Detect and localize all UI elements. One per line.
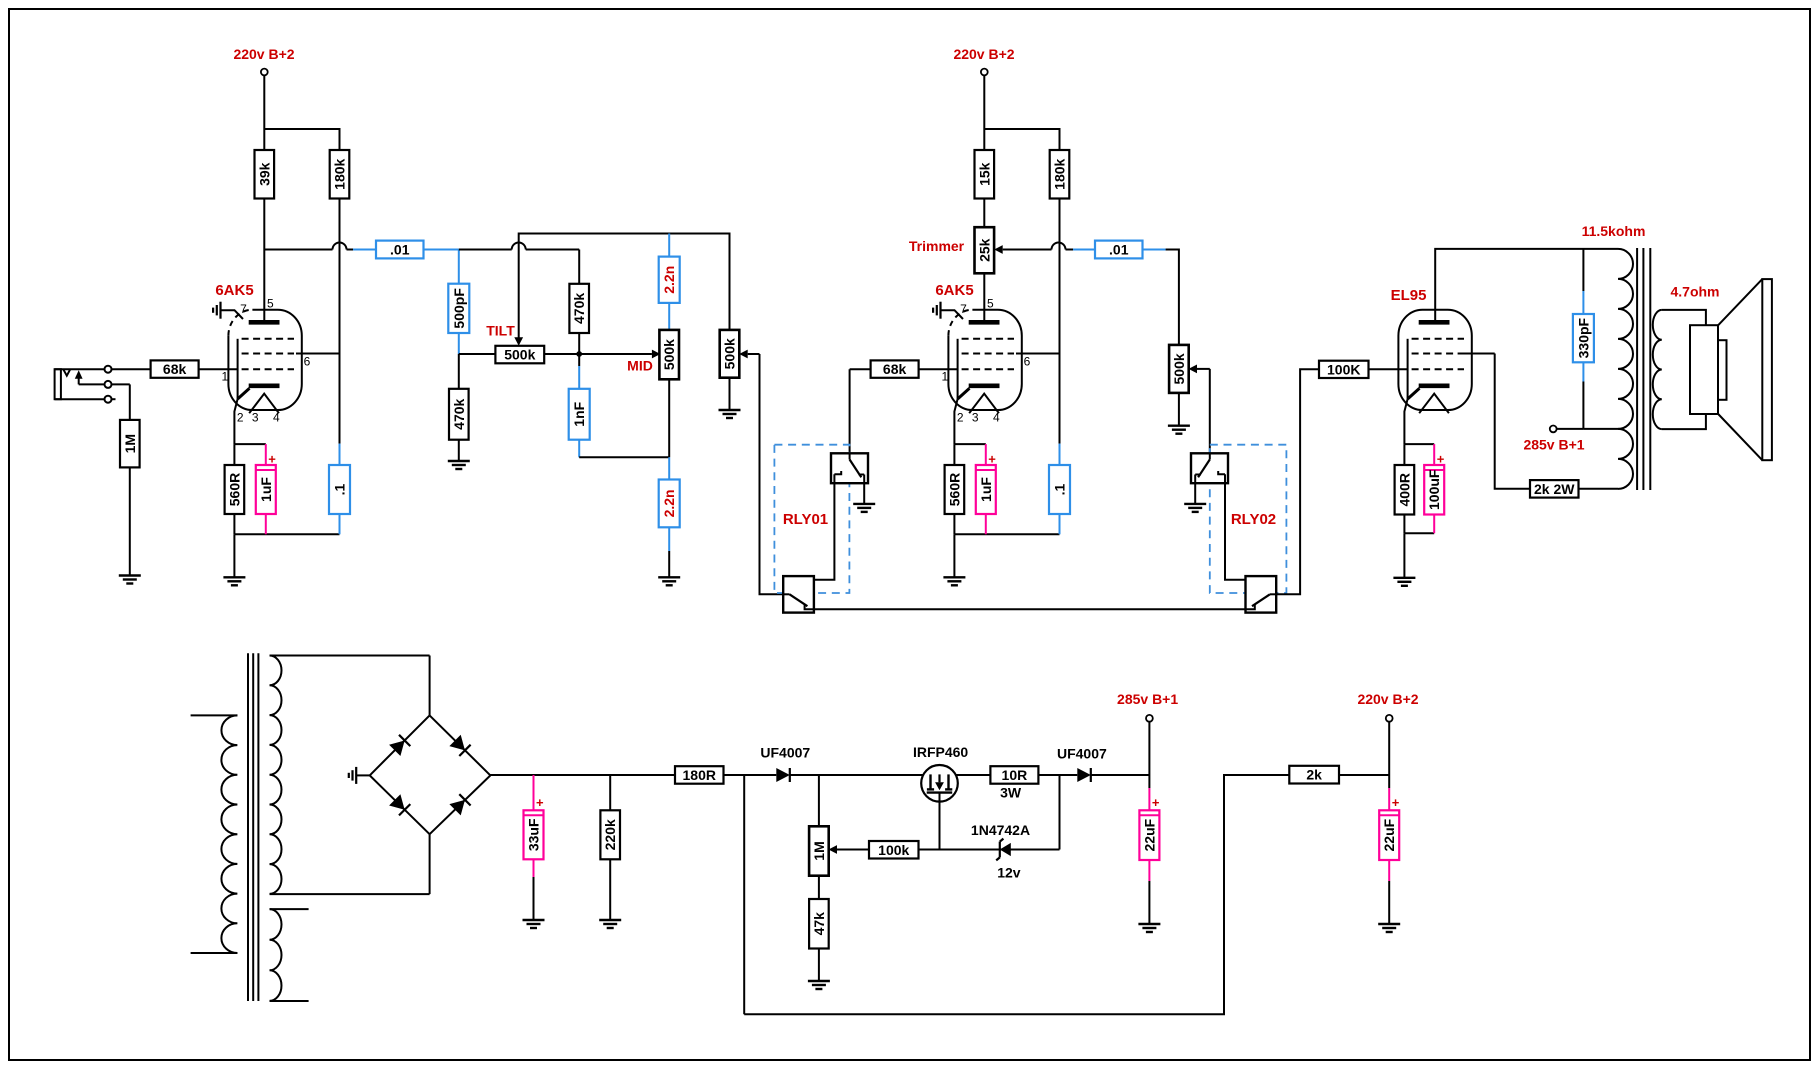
wire RLY02 link upper to lower <box>1225 474 1255 585</box>
pot MID 500k <box>627 330 679 379</box>
svg-text:33uF: 33uF <box>526 818 542 851</box>
svg-text:220v B+2: 220v B+2 <box>1357 691 1418 707</box>
ground bridge negative <box>349 767 370 784</box>
svg-text:6: 6 <box>304 355 311 369</box>
resistor 2k (B+2 filter) <box>1289 766 1339 784</box>
resistor 560R (stage2 cathode) <box>945 465 965 514</box>
relay RLY01 lower switch <box>783 576 814 613</box>
svg-text:5: 5 <box>987 297 994 311</box>
svg-text:100k: 100k <box>878 842 909 858</box>
svg-text:400R: 400R <box>1396 473 1412 506</box>
svg-text:1uF: 1uF <box>258 477 274 502</box>
tube V2 6AK5 <box>933 282 1031 444</box>
svg-text:6: 6 <box>1024 355 1031 369</box>
svg-text:220k: 220k <box>602 819 618 850</box>
transformer T1 heater winding <box>270 909 309 1001</box>
svg-text:180k: 180k <box>1052 158 1068 189</box>
ground below 22uF B+1 <box>1138 924 1160 932</box>
resistor 220k (bleeder) <box>600 775 620 920</box>
node 500pF to TILT wire <box>459 354 496 389</box>
wire D5 to MOSFET drain <box>790 774 923 776</box>
svg-text:47k: 47k <box>811 912 827 936</box>
svg-text:3W: 3W <box>1000 785 1022 801</box>
ground RLY01 upper switch <box>853 504 875 512</box>
capacitor .1 (stage2) <box>1049 465 1070 534</box>
node 285v B+1 terminal (output) <box>1523 426 1584 453</box>
pot 1M (bias adjust) <box>809 826 869 875</box>
svg-text:2k: 2k <box>1306 767 1322 783</box>
svg-text:285v B+1: 285v B+1 <box>1523 437 1584 453</box>
svg-text:220v B+2: 220v B+2 <box>233 46 294 62</box>
ground RLY02 upper switch <box>1184 504 1206 512</box>
svg-text:220v B+2: 220v B+2 <box>953 46 1014 62</box>
capacitor 22uF (B+2 filter) <box>1379 788 1400 924</box>
relay RLY02 upper switch <box>1191 453 1228 504</box>
wire .01 to 470k top with hop over TILT wiper <box>459 243 579 284</box>
relay RLY01 upper switch <box>831 453 868 504</box>
transformer T1 HV secondary <box>270 656 430 895</box>
svg-text:1: 1 <box>222 370 229 384</box>
svg-text:RLY01: RLY01 <box>783 511 828 528</box>
svg-text:500k: 500k <box>661 339 677 370</box>
transistor IRFP460 MOSFET <box>913 744 968 850</box>
svg-text:330pF: 330pF <box>1575 317 1591 358</box>
resistor 470k (tone upper) <box>569 284 589 333</box>
svg-text:EL95: EL95 <box>1391 287 1427 304</box>
diode UF4007 D6 <box>1057 746 1107 783</box>
ground below 47k <box>808 981 830 989</box>
diode UF4007 D5 <box>760 745 810 783</box>
pot Trimmer 25k <box>909 227 1052 273</box>
wire 400R bottom join <box>1404 515 1434 578</box>
svg-text:TILT: TILT <box>486 323 515 339</box>
svg-text:UF4007: UF4007 <box>1057 746 1107 762</box>
node 220v B+2 terminal (stage1) <box>233 46 294 75</box>
resistor 47k (bias divider) <box>809 876 829 981</box>
svg-text:+: + <box>988 452 996 467</box>
capacitor .01 (stage1 coupling) <box>376 241 424 259</box>
wire stage1 screen pin6 to 180k <box>296 353 340 355</box>
ground below 1M <box>119 576 141 584</box>
ground below 22uF B+2 <box>1378 924 1400 932</box>
capacitor 1uF (stage2 cathode bypass) <box>976 444 996 534</box>
wire stage2 grid drop to RLY01 <box>849 369 851 453</box>
wire input jack tip to 68k <box>112 368 151 370</box>
resistor 400R (EL95 cathode) <box>1395 465 1415 515</box>
resistor 560R (stage1 cathode) <box>225 465 245 514</box>
wire RLY01 to 68k <box>850 368 871 370</box>
wire HV secondary to bridge <box>429 656 431 895</box>
transformer T2 core <box>1637 248 1650 490</box>
capacitor 330pF (snubber) <box>1573 249 1594 429</box>
resistor 10R 3W <box>990 766 1038 800</box>
svg-text:180k: 180k <box>332 158 348 189</box>
svg-text:.01: .01 <box>1109 242 1129 258</box>
capacitor .1 (stage1) <box>329 465 350 534</box>
svg-text:2: 2 <box>237 411 244 425</box>
wire D6 to B+1 node <box>1091 774 1150 776</box>
resistor 68k (stage2 grid) <box>871 360 919 377</box>
node junction dot <box>576 351 582 357</box>
wire B+2 to 39k/180k branch <box>264 75 339 150</box>
svg-text:IRFP460: IRFP460 <box>913 744 968 760</box>
resistor 180R (filter) <box>675 766 724 784</box>
wire trimmer to plate of V2 <box>983 273 985 322</box>
ground below 400R <box>1393 578 1415 586</box>
wire 560R bottom join (stage2) <box>954 514 1059 577</box>
svg-text:Trimmer: Trimmer <box>909 238 965 254</box>
capacitor 100uF (EL95 cathode bypass) <box>1424 444 1445 533</box>
node 220v B+2 terminal (stage2) <box>953 46 1014 75</box>
svg-text:10R: 10R <box>1002 767 1028 783</box>
svg-text:500k: 500k <box>1171 353 1187 384</box>
transformer T1 core <box>248 653 258 1001</box>
svg-text:7: 7 <box>960 302 967 316</box>
svg-text:285v B+1: 285v B+1 <box>1117 691 1178 707</box>
ground below 220k <box>599 920 621 928</box>
wire cathode junction (stage1) <box>234 444 265 465</box>
wire 560R bottom join <box>234 514 339 577</box>
svg-text:2: 2 <box>957 411 964 425</box>
svg-text:5: 5 <box>267 297 274 311</box>
svg-text:1uF: 1uF <box>978 477 994 502</box>
wire .01 to 500pF node <box>424 249 459 251</box>
wire 68k to grid pin1 <box>199 368 238 370</box>
ground below 33uF <box>523 920 545 928</box>
svg-text:1M: 1M <box>122 434 138 453</box>
svg-text:4: 4 <box>273 411 280 425</box>
wire ring to 1M <box>129 384 131 420</box>
wire .01 to 500k <box>1143 250 1179 345</box>
wire tone top bus <box>519 234 730 339</box>
svg-text:100uF: 100uF <box>1426 469 1442 510</box>
capacitor 22uF (B+1 filter) <box>1139 788 1160 924</box>
wire RLY02 to 100K <box>1276 369 1319 594</box>
diode bridge D2 <box>449 735 470 756</box>
transformer T2 11.5kohm primary <box>1582 223 1646 489</box>
wire 2k to B+2 node <box>1339 774 1389 776</box>
wire bridge output rail <box>490 774 675 776</box>
wire trimmer wiper to .01 with hop over 180k <box>1052 243 1096 250</box>
resistor 15k <box>975 150 995 199</box>
wire EL95 screen to 2k 2W <box>1464 354 1530 489</box>
wire 500k wiper down to RLY02 <box>1209 369 1211 453</box>
svg-text:MID: MID <box>627 358 653 374</box>
svg-text:15k: 15k <box>976 162 992 186</box>
svg-text:1nF: 1nF <box>571 401 587 426</box>
resistor 100k (gate) <box>869 841 940 859</box>
svg-text:6AK5: 6AK5 <box>935 282 973 299</box>
svg-text:7: 7 <box>240 302 247 316</box>
svg-text:+: + <box>268 452 276 467</box>
diode bridge D3 <box>389 794 410 815</box>
svg-text:+: + <box>1437 452 1445 467</box>
svg-text:6AK5: 6AK5 <box>215 282 253 299</box>
svg-text:4: 4 <box>993 411 1000 425</box>
svg-text:470k: 470k <box>571 293 587 324</box>
capacitor 1uF (stage1 cathode bypass) <box>256 444 276 534</box>
capacitor .01 (stage2 coupling) <box>1095 241 1143 259</box>
ground below 500k <box>719 410 741 418</box>
relay RLY02 lower switch <box>1246 576 1277 613</box>
svg-text:22uF: 22uF <box>1141 818 1157 851</box>
capacitor 1nF <box>569 356 590 457</box>
svg-text:1M: 1M <box>811 841 827 860</box>
resistor 2k 2W (screen) <box>1530 480 1579 498</box>
svg-text:25k: 25k <box>976 238 992 262</box>
wire 500k wiper down to RLY01 <box>760 354 784 594</box>
wire tap to transformer <box>1583 428 1618 430</box>
svg-text:.1: .1 <box>1052 483 1068 495</box>
svg-text:39k: 39k <box>256 162 272 186</box>
svg-text:.1: .1 <box>332 483 348 495</box>
relay RLY02 dashed outline <box>1210 445 1287 593</box>
svg-text:.01: .01 <box>390 242 410 258</box>
svg-text:3: 3 <box>252 411 259 425</box>
svg-text:500k: 500k <box>504 347 535 363</box>
wire TILT to MID arrow <box>544 350 660 359</box>
relay RLY01 dashed outline <box>774 445 849 593</box>
svg-text:560R: 560R <box>946 473 962 506</box>
transformer T1 primary <box>191 715 238 953</box>
ground below 560R <box>223 577 245 585</box>
svg-text:RLY02: RLY02 <box>1231 511 1276 528</box>
wire 1M to ground <box>129 467 131 575</box>
svg-text:1: 1 <box>942 370 949 384</box>
wire 500k to ground (stage2) <box>1178 393 1180 426</box>
wire plate node to .01 with hop over 180k <box>264 243 376 250</box>
wire RLY01 link upper to lower <box>804 474 834 585</box>
tube V3 EL95 <box>1391 287 1472 444</box>
wire 100K to grid of V3 <box>1369 368 1409 370</box>
ground below 560R (stage2) <box>943 577 965 585</box>
resistor 180k (stage1) <box>330 150 350 199</box>
resistor 39k <box>255 150 275 199</box>
pot 500k (stage2 volume) <box>1169 345 1210 393</box>
ground below 500k (stage2) <box>1168 426 1190 434</box>
svg-text:500k: 500k <box>722 338 738 369</box>
transformer T2 secondary <box>1653 310 1706 429</box>
wire rail branch to 1M <box>818 775 820 826</box>
svg-text:2k 2W: 2k 2W <box>1534 481 1575 497</box>
wire 39k to plate of V1 <box>263 199 265 323</box>
resistor 470k (tone lower-left) <box>449 389 469 440</box>
wire 180k to screen node and .1 <box>339 199 341 466</box>
svg-text:+: + <box>1152 795 1160 810</box>
bridge rectifier diamond <box>370 715 491 834</box>
svg-text:12v: 12v <box>997 865 1021 881</box>
svg-text:1N4742A: 1N4742A <box>971 822 1030 838</box>
svg-text:+: + <box>536 795 544 810</box>
wire B+2 to 15k/180k branch <box>984 75 1059 150</box>
wire EL95 cathode junction <box>1404 444 1434 465</box>
svg-text:11.5kohm: 11.5kohm <box>1582 223 1646 239</box>
wire 470k to ground <box>458 440 460 461</box>
ground below 470k <box>448 461 470 469</box>
diode bridge D4 <box>449 794 470 815</box>
svg-text:+: + <box>1392 795 1400 810</box>
capacitor 2.2n (upper) <box>659 234 680 330</box>
svg-text:470k: 470k <box>451 398 467 429</box>
svg-text:180R: 180R <box>683 767 716 783</box>
resistor 100K (EL95 grid) <box>1319 361 1369 378</box>
wire EL95 plate to transformer <box>1435 249 1618 323</box>
wire feedback bottom rail to 2k <box>744 775 1289 1014</box>
svg-text:2.2n: 2.2n <box>661 489 677 517</box>
resistor 1M (input) <box>120 420 140 468</box>
svg-text:22uF: 22uF <box>1381 818 1397 851</box>
resistor 180k (stage2) <box>1050 150 1070 199</box>
wire 180k to screen node and .1 (stage2) <box>1059 199 1061 466</box>
wire 470k to center node <box>578 333 580 354</box>
svg-text:68k: 68k <box>883 361 907 377</box>
wire 15k to trimmer <box>983 199 985 228</box>
resistor 68k (stage1 grid) <box>151 360 199 377</box>
wire MID bottom to 1nF bottom <box>579 379 669 457</box>
wire 180R to D5 and feedback drop <box>724 775 777 1014</box>
wire 68k to grid of V2 <box>919 368 958 370</box>
node 285v B+1 terminal (psu) <box>1117 691 1178 788</box>
svg-text:500pF: 500pF <box>451 288 467 329</box>
wire cathode junction (stage2) <box>954 444 985 465</box>
speaker 4.7ohm <box>1670 279 1771 460</box>
pot TILT 500k <box>486 323 544 364</box>
wire 2k 2W to transformer tap <box>1579 488 1619 490</box>
svg-text:UF4007: UF4007 <box>760 745 810 761</box>
svg-text:68k: 68k <box>163 361 187 377</box>
svg-text:2.2n: 2.2n <box>661 266 677 294</box>
wire MOSFET to 10R <box>956 774 991 776</box>
node 220v B+2 terminal (psu) <box>1357 691 1418 788</box>
capacitor 2.2n (lower) <box>659 457 680 577</box>
pot 500k (stage1 volume) <box>720 330 760 378</box>
wire relay bus RLY01 to RLY02 <box>814 608 1246 610</box>
input jack <box>55 366 130 403</box>
svg-text:100K: 100K <box>1327 361 1360 377</box>
wire 500k to ground <box>729 378 731 410</box>
wire 10R to D6 and zener branch <box>1038 775 1077 850</box>
svg-text:3: 3 <box>972 411 979 425</box>
diode bridge D1 <box>389 735 410 756</box>
diode zener 1N4742A 12v <box>940 822 1060 881</box>
tube V1 6AK5 <box>213 282 311 444</box>
svg-text:4.7ohm: 4.7ohm <box>1670 284 1719 300</box>
capacitor 500pF <box>448 250 469 355</box>
wire screen pin6 to 180k (stage2) <box>1016 353 1060 355</box>
svg-text:560R: 560R <box>226 473 242 506</box>
capacitor 33uF (reservoir) <box>524 775 545 920</box>
ground below 2.2n <box>658 577 680 585</box>
